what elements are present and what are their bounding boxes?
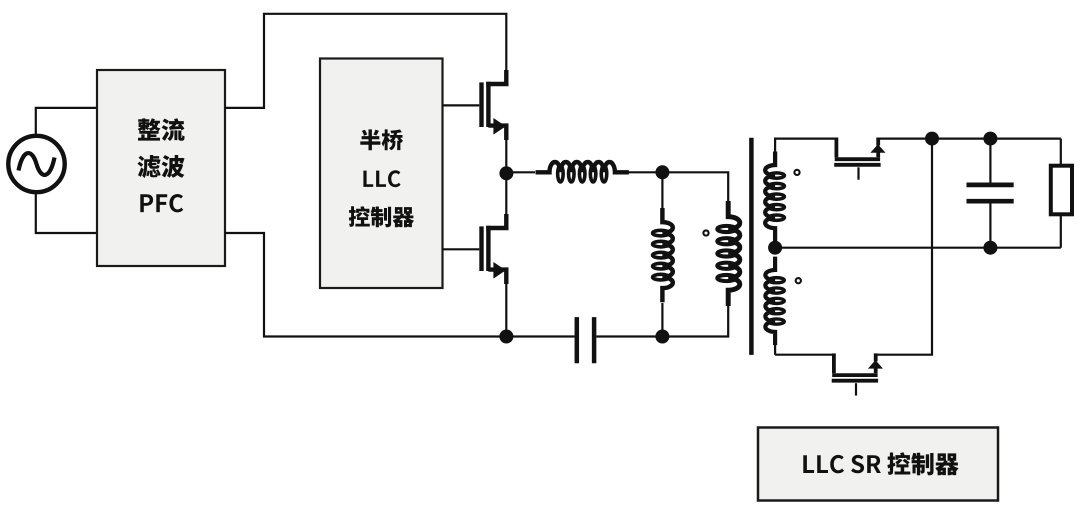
wire gate drive to Q2 — [443, 248, 480, 250]
wire Q2 source to bottom rail — [505, 283, 507, 337]
wire center tap stub — [774, 241, 776, 355]
secondary top polarity dot — [794, 170, 799, 175]
wire secondary top to output rail — [775, 139, 836, 152]
wire PFC top output to HV bus — [225, 14, 506, 108]
wire output top rail — [932, 138, 1061, 140]
label 整流 — [138, 118, 185, 141]
wire Q4 rail from secondary bottom — [775, 354, 834, 356]
wire load top lead — [1060, 139, 1062, 166]
wire Cr to node B — [596, 335, 662, 337]
wire primary bottom to node B — [662, 303, 728, 337]
wire Q4 source up to output node — [876, 139, 932, 355]
wire Lm to node B — [661, 303, 663, 337]
secondary bottom polarity dot — [796, 278, 801, 283]
block: LLC SR controller box — [758, 428, 998, 501]
node: SR output join — [925, 132, 939, 146]
secondary winding top — [765, 151, 784, 241]
output capacitor Cout — [967, 185, 1014, 201]
label 半桥 — [360, 129, 403, 150]
magnetizing inductor Lm — [653, 208, 673, 302]
wire switch node to resonant inductor — [506, 171, 535, 173]
node: bottom rail at Q2 source — [499, 330, 513, 344]
wire cap bottom lead — [989, 203, 991, 247]
transistor Q3 (top SR MOSFET) — [834, 138, 880, 165]
resonant inductor Lr — [536, 162, 629, 182]
transformer primary winding — [717, 201, 740, 306]
node A: tank top — [655, 165, 669, 179]
secondary winding bottom — [765, 257, 784, 346]
node: center tap — [768, 241, 782, 255]
wire Q1 source to switch node — [505, 138, 507, 173]
wire gate drive to Q1 — [443, 104, 480, 106]
primary polarity dot — [703, 230, 708, 235]
label LLC SR 控制器 — [803, 452, 958, 475]
label 控制器 — [349, 206, 414, 227]
resonant capacitor Cr — [577, 317, 594, 363]
AC source V1 — [8, 136, 64, 192]
wire PFC bottom output to ground bus — [225, 233, 507, 337]
transformer core — [749, 138, 754, 355]
label LLC — [363, 170, 400, 187]
node: cap bottom — [983, 241, 997, 255]
wire AC top to PFC — [36, 108, 98, 137]
wire node A down to Lm — [661, 172, 663, 209]
wire bottom rail to resonant capacitor — [506, 335, 574, 337]
label 滤波 — [137, 155, 184, 178]
node: cap top — [983, 132, 997, 146]
label PFC — [140, 194, 183, 212]
node: half-bridge midpoint — [499, 166, 513, 180]
wire switch node to Q2 drain — [505, 173, 507, 214]
wire Q3 source to output node — [878, 138, 932, 140]
wire node A to transformer primary top — [662, 172, 728, 205]
transistor Q2 (low-side MOSFET) — [482, 214, 507, 284]
wire output return rail — [775, 247, 1061, 249]
transistor Q1 (high-side MOSFET) — [482, 70, 507, 140]
block: rectifier/filter/PFC box — [97, 70, 225, 266]
wire load bottom lead — [1060, 214, 1062, 247]
wire Lr to node A — [628, 171, 662, 173]
wire cap top lead — [989, 139, 991, 183]
wire AC bottom to PFC — [36, 192, 98, 234]
block: half-bridge LLC controller box — [320, 59, 443, 289]
transistor Q4 (bottom SR MOSFET) — [832, 353, 878, 380]
load resistor RL — [1051, 166, 1072, 215]
node B: tank bottom — [655, 330, 669, 344]
